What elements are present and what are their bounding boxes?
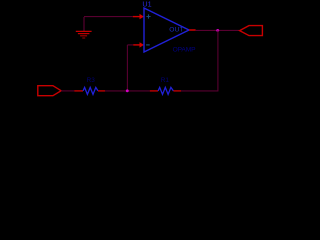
wire ground to U1 non-inverting input <box>84 16 133 18</box>
pin OUT stub of U1 <box>189 29 196 31</box>
pin - of U1 (red arrow) <box>133 42 144 47</box>
svg-text:R1: R1 <box>161 77 170 84</box>
junction output node <box>216 29 219 32</box>
input port <box>38 86 61 96</box>
svg-text:R3: R3 <box>87 77 96 84</box>
wire R3 to feedback node <box>105 90 150 92</box>
wire input port to R3 <box>61 90 74 92</box>
op-amp U1 <box>144 8 189 52</box>
wire U1 output to port <box>196 29 239 31</box>
svg-text:U1: U1 <box>142 0 151 8</box>
pin + of U1 (red arrow) <box>133 14 144 19</box>
ground <box>76 17 92 38</box>
svg-text:OUT: OUT <box>169 27 184 34</box>
resistor R3 <box>74 87 105 94</box>
junction feedback node <box>126 89 129 92</box>
resistor R1 <box>150 87 181 94</box>
wire output node down to feedback rail <box>217 30 219 91</box>
svg-text:OPAMP: OPAMP <box>173 47 197 54</box>
wire R1 to output node rail <box>181 90 218 92</box>
output port <box>240 26 263 36</box>
wire feedback node to U1 inverting input <box>127 45 133 91</box>
